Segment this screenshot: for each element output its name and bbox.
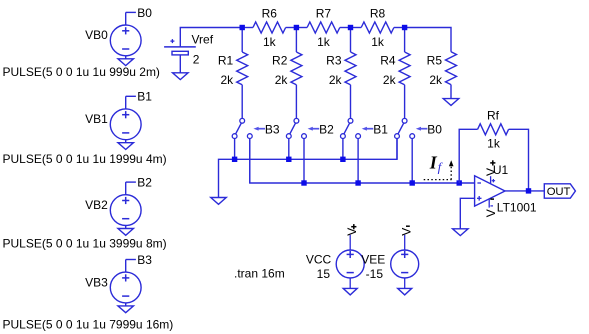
label If subscript f [438,160,444,175]
wire switch left contact B3 [234,139,236,160]
svg-text:VB0: VB0 [85,28,108,42]
svg-text:B2: B2 [319,123,334,137]
value Vref 2 [193,52,200,66]
svg-text:V: V [400,228,414,236]
resistor R2 [291,52,302,85]
value R5 2k [429,73,443,87]
svg-text:B1: B1 [137,90,152,104]
svg-text:2k: 2k [429,73,443,87]
wire rail R7 right [340,27,351,29]
voltage source VB0 [110,25,141,56]
wire switch left contact B1 [342,139,344,160]
label R7 [316,6,332,20]
wire switch right contact B2 [303,139,305,184]
svg-text:R3: R3 [326,54,342,68]
resistor R8 [361,22,394,33]
port flag OUT [544,184,575,198]
ground under VB0 [118,59,134,66]
value label VB3 PULSE [3,318,174,332]
wire lower summing bus [250,139,475,184]
label If current I [429,153,438,173]
arrow to switch B1 [362,127,374,131]
svg-text:V: V [345,228,359,236]
label Vref [192,33,214,47]
wire Vref to ground [179,55,181,73]
svg-text:B0: B0 [137,6,152,20]
wire R4 to switch [404,85,406,119]
svg-text:VCC: VCC [306,253,332,267]
arrow to switch B2 [308,127,320,131]
label OUT [547,186,571,198]
op-amp V+ pin [491,176,496,183]
label U1 [493,163,509,177]
value R7 1k [317,35,331,49]
battery Vref bottom plate [172,51,188,55]
svg-text:U1: U1 [493,163,509,177]
value R8 1k [371,35,385,49]
wire VB0 to ground [125,56,127,59]
label VCC [306,253,332,267]
wire VEE top [404,235,406,250]
junction lower bus feedback node [457,180,462,185]
svg-text:VEE: VEE [361,253,385,267]
battery Vref plus sign [170,39,174,43]
value label VB1 PULSE [3,152,167,166]
label VB2 [85,198,108,212]
wire VEE to ground [404,278,406,288]
value VEE -15 [366,267,384,281]
label R1 [218,54,234,68]
ground under VB2 [118,229,134,236]
label R2 [272,54,288,68]
junction rail node 3 [348,25,353,30]
resistor Rf [478,124,509,135]
svg-text:1k: 1k [317,35,331,49]
resistor R3 [345,52,356,85]
svg-text:R4: R4 [380,54,396,68]
label R8 [370,6,386,20]
ground under VEE [398,288,412,295]
value label VB2 PULSE [3,237,167,251]
junction lower bus 2 [355,180,360,185]
label switch B2 [319,123,334,137]
label VEE [361,253,385,267]
svg-text:B3: B3 [265,123,280,137]
wire R5 to ground [450,85,452,99]
label R3 [326,54,342,68]
label LT1001 [497,200,537,214]
wire rail R8 right [394,27,405,29]
svg-text:1k: 1k [487,137,501,151]
label R6 [262,6,278,20]
resistor R1 [237,52,248,85]
junction upper bus 2 [286,157,291,162]
svg-text:R1: R1 [218,54,234,68]
wire R1 to switch [241,85,243,119]
svg-text:B2: B2 [137,176,152,190]
svg-text:Rf: Rf [487,108,500,122]
junction output node [526,188,531,193]
svg-text:.tran 16m: .tran 16m [234,267,285,281]
ground under R5 [443,99,459,106]
svg-text:B3: B3 [137,253,152,267]
svg-text:2k: 2k [275,73,289,87]
wire VB2 top tap [126,182,136,195]
dotted line If vertical [450,164,452,180]
ground at upper bus left [211,198,227,205]
wire rail R7 left [296,27,307,29]
wire switch right contact B1 [357,139,359,184]
op-amp V- pin label [484,199,498,217]
wire switch left contact B0 [396,139,398,160]
value Rf 1k [487,137,501,151]
resistor R6 [253,22,286,33]
svg-text:-15: -15 [366,267,384,281]
wire VB2 to ground [125,226,127,229]
svg-text:OUT: OUT [547,186,571,198]
wire R2 top [295,28,297,53]
net label V+ above VCC [345,224,359,236]
wire upper ground bus [219,139,398,198]
svg-text:PULSE(5 0 0 1u 1u 3999u 8m): PULSE(5 0 0 1u 1u 3999u 8m) [3,237,167,251]
net label V- above VEE [400,226,414,236]
svg-text:1k: 1k [263,35,277,49]
label VB0 [85,28,108,42]
dotted line If horizontal [424,179,452,181]
value VCC 15 [317,267,331,281]
resistor R4 [399,52,410,85]
ground under VB1 [118,143,134,150]
junction upper bus 1 [232,157,237,162]
wire switch right contact B3 [249,139,251,184]
wire rail R6 left [242,27,253,29]
ground under VB3 [118,306,134,313]
value R4 2k [383,73,397,87]
svg-text:VB1: VB1 [85,112,108,126]
arrow to switch B3 [253,127,265,131]
svg-text:2k: 2k [221,73,235,87]
svg-text:2: 2 [193,52,200,66]
junction rail node 1 [240,25,245,30]
wire VB3 to ground [125,303,127,306]
arrowhead If [449,160,454,166]
wire rail R8 left [351,27,362,29]
label Rf [487,108,500,122]
voltage source VCC [336,250,364,278]
svg-text:I: I [429,153,438,173]
resistor R5 [446,52,457,85]
svg-text:15: 15 [317,267,331,281]
node label B0 [137,6,152,20]
svg-text:V: V [484,209,498,217]
svg-text:R5: R5 [427,54,443,68]
wire VCC to ground [349,278,351,288]
wire R4 top [404,28,406,53]
resistor R7 [307,22,340,33]
battery Vref top plate [164,46,196,48]
svg-text:2k: 2k [383,73,397,87]
wire Rf left leg [459,129,477,183]
wire R3 to switch [350,85,352,119]
wire VCC top [349,235,351,250]
op-amp plus input mark [477,196,482,201]
wire VB1 to ground [125,140,127,143]
wire VB3 top tap [126,260,136,273]
wire R2 to switch [295,85,297,119]
switch S3 (B2) [286,118,306,138]
svg-text:R2: R2 [272,54,288,68]
svg-text:2k: 2k [329,73,343,87]
value R6 1k [263,35,277,49]
svg-text:PULSE(5 0 0 1u 1u 999u 2m): PULSE(5 0 0 1u 1u 999u 2m) [3,65,160,79]
ground under Vref [173,73,189,80]
op-amp V- pin [489,199,493,208]
voltage source VB1 [110,109,141,140]
svg-text:VB2: VB2 [85,198,108,212]
junction lower bus 1 [301,180,306,185]
switch S2 (B1) [341,118,361,138]
wire R3 top [350,28,352,53]
op-amp minus input mark [477,182,481,184]
wire op-amp output [505,190,544,192]
op-amp U1 body [475,176,505,206]
svg-text:LT1001: LT1001 [497,200,537,214]
node label B2 [137,176,152,190]
svg-text:R7: R7 [316,6,332,20]
directive .tran 16m [234,267,285,281]
value R1 2k [221,73,235,87]
switch S4 (B3) [232,118,252,138]
junction lower bus 3 [410,180,415,185]
junction upper bus 3 [340,157,345,162]
label VB1 [85,112,108,126]
value label VB0 PULSE [3,65,160,79]
value R3 2k [329,73,343,87]
value R2 2k [275,73,289,87]
wire R1 top [241,28,243,53]
wire VB0 top tap [126,12,136,25]
voltage source VB3 [110,272,141,303]
wire op-amp + input [460,198,474,229]
ground at op-amp + input [453,229,469,236]
svg-text:Vref: Vref [192,33,214,47]
voltage source VEE [391,250,419,278]
wire Vref top to rail [180,28,242,47]
switch S1 (B0) [395,118,415,138]
svg-text:PULSE(5 0 0 1u 1u 7999u 16m): PULSE(5 0 0 1u 1u 7999u 16m) [3,318,174,332]
svg-text:R6: R6 [262,6,278,20]
label R5 [427,54,443,68]
op-amp V+ pin label [484,160,498,176]
wire switch left contact B2 [288,139,290,160]
voltage source VB2 [110,195,141,226]
label switch B1 [373,123,388,137]
svg-text:B0: B0 [427,123,442,137]
ground under VCC [343,288,357,295]
svg-text:VB3: VB3 [85,275,108,289]
label VB3 [85,275,108,289]
node label B1 [137,90,152,104]
wire Rf right leg [509,129,529,191]
label R4 [380,54,396,68]
junction rail node 4 [402,25,407,30]
arrow to switch B0 [416,127,428,131]
svg-text:R8: R8 [370,6,386,20]
wire rail to R5 [405,28,451,52]
junction rail node 2 [294,25,299,30]
wire VB1 top tap [126,96,136,109]
wire switch right contact B0 [411,139,413,184]
svg-text:PULSE(5 0 0 1u 1u 1999u 4m): PULSE(5 0 0 1u 1u 1999u 4m) [3,152,167,166]
svg-text:1k: 1k [371,35,385,49]
node label B3 [137,253,152,267]
svg-text:B1: B1 [373,123,388,137]
label switch B3 [265,123,280,137]
wire rail R6 right [286,27,297,29]
label switch B0 [427,123,442,137]
